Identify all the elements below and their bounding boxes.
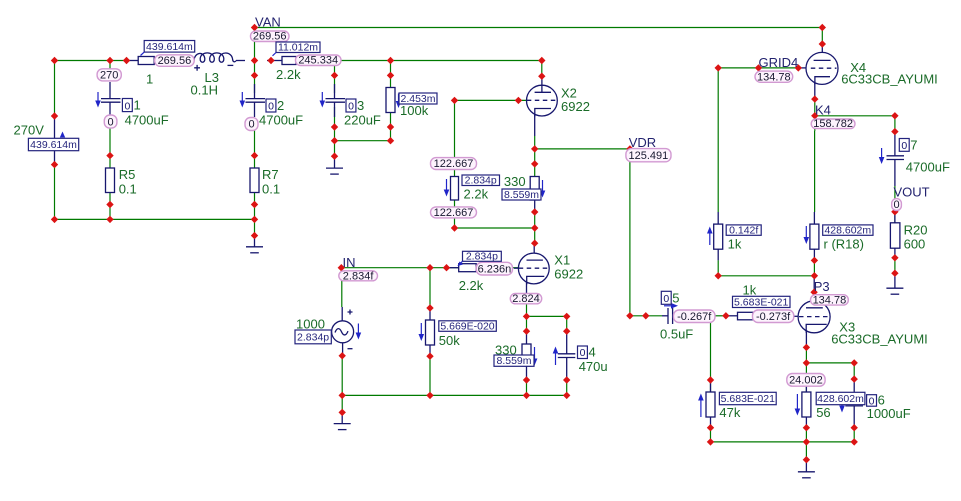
svg-text:2: 2: [277, 98, 284, 113]
wire X1 plate stub: [533, 243, 535, 260]
node label 158.782: [811, 118, 855, 130]
svg-text:0.1: 0.1: [262, 182, 280, 197]
svg-text:5.683E-021: 5.683E-021: [721, 393, 775, 405]
meter 2.834p (source): [295, 330, 331, 344]
wire X3 cathode to 1000uF y=362.9: [806, 362, 854, 364]
value 220uF: [344, 113, 381, 128]
svg-text:2.2k: 2.2k: [276, 67, 301, 82]
meter 439.614m (270V): [28, 138, 78, 151]
svg-text:47k: 47k: [719, 405, 740, 420]
svg-text:GRID4: GRID4: [759, 55, 799, 70]
wire X2 grid wire y=100.4: [455, 99, 527, 101]
ground below C3: [326, 158, 343, 174]
arrow 330 X1 current: [532, 347, 538, 366]
meter 5.669E-020: [439, 320, 497, 332]
node dots C7/R20: [891, 112, 898, 277]
meter 5.683E-021 (47k): [719, 392, 776, 405]
svg-text:VAN: VAN: [255, 15, 281, 30]
svg-text:0: 0: [348, 101, 354, 113]
value 0.1H: [191, 83, 218, 98]
svg-text:158.782: 158.782: [813, 118, 853, 130]
svg-text:R5: R5: [119, 167, 136, 182]
node dots X4: [715, 40, 827, 119]
resistor 330 (X2 cathode): [530, 177, 539, 201]
node label 122.667 top: [431, 158, 477, 170]
triode X4 6C33CB: [806, 52, 838, 84]
wire VAN vertical stub: [254, 28, 256, 61]
svg-text:2.824: 2.824: [512, 293, 540, 305]
wire 50k branch x=430: [429, 268, 431, 396]
arrow 47k current (up): [698, 394, 704, 418]
svg-text:4700uF: 4700uF: [125, 113, 169, 128]
name R20: [904, 223, 928, 238]
wire 470u branch x=566.7: [566, 316, 568, 395]
value 6C33CB_AYUMI X4: [841, 72, 938, 87]
node dots source: [339, 352, 346, 416]
meter 8.559m (X2 330): [502, 189, 541, 201]
value 330 X2: [504, 174, 526, 189]
value 1000uF: [867, 406, 911, 421]
node label 6.236n: [476, 262, 512, 275]
node dots 47k: [707, 376, 714, 445]
svg-text:VDR: VDR: [629, 135, 656, 150]
svg-text:1000: 1000: [296, 317, 325, 332]
value 0.1 R7: [262, 182, 280, 197]
wire bottom rail y=395.4: [342, 394, 567, 396]
capacitor C4 470u: [558, 354, 576, 358]
designator C7: [899, 137, 917, 152]
arrow C7 current: [879, 148, 885, 164]
svg-text:2.2k: 2.2k: [459, 278, 484, 293]
value 100k: [400, 103, 429, 118]
resistor R7 0.1: [250, 168, 259, 193]
svg-text:122.667: 122.667: [434, 207, 474, 219]
wire X2 plate stub: [541, 61, 543, 77]
svg-text:24.002: 24.002: [789, 375, 823, 387]
wire main rail y=60.5: [55, 60, 542, 62]
svg-text:245.334: 245.334: [298, 55, 338, 67]
node dots 470u: [563, 313, 570, 399]
wire 100k branch x=390.5: [390, 61, 392, 141]
wire X1 cathode to 470u y=316.4: [527, 315, 567, 317]
capacitor C6 1000uF: [845, 401, 863, 406]
resistor 47k: [706, 392, 715, 417]
node label 24.002: [787, 374, 825, 387]
svg-text:r (R18): r (R18): [824, 237, 864, 252]
value 47k: [719, 405, 740, 420]
wire r18 branch x=814.4: [813, 131, 815, 276]
node dots 1000uF: [851, 359, 858, 445]
resistor 2.2k X1 grid: [447, 264, 476, 272]
wire bottom-right rail y=441.9: [711, 441, 855, 443]
svg-text:100k: 100k: [400, 103, 429, 118]
ground bottom right: [798, 460, 815, 478]
value 4700uF C2: [259, 113, 303, 128]
svg-text:5: 5: [672, 290, 679, 305]
arrow 100k current: [396, 94, 402, 109]
arrow 470u current (up): [553, 347, 559, 366]
value 4700uF C1: [125, 113, 169, 128]
wire top VAN rail y=27.5: [255, 27, 823, 29]
value 2.2k X1 grid: [459, 278, 484, 293]
name X2: [561, 86, 577, 101]
node IN: [343, 255, 356, 270]
svg-text:470u: 470u: [579, 359, 608, 374]
svg-text:6C33CB_AYUMI: 6C33CB_AYUMI: [831, 332, 928, 347]
designator C1: [122, 98, 140, 113]
svg-text:1000uF: 1000uF: [867, 406, 911, 421]
svg-text:439.614m: 439.614m: [146, 41, 193, 53]
svg-text:2.834p: 2.834p: [465, 175, 497, 187]
value 2.2k grid leak: [464, 187, 489, 202]
svg-text:6C33CB_AYUMI: 6C33CB_AYUMI: [841, 72, 938, 87]
designator C5: [661, 290, 679, 305]
value 6922 X2: [561, 99, 590, 114]
name R5: [119, 167, 136, 182]
arrow C1 current: [95, 92, 101, 108]
wire 2.2k vertical branch x=454.5: [454, 100, 456, 228]
arrow 2.2k grid leak current: [444, 179, 450, 197]
svg-text:0: 0: [108, 116, 114, 128]
node dots 100k: [387, 72, 394, 145]
node dots left branch: [51, 112, 58, 223]
resistor 1 (series 0.1 ohm): [128, 57, 157, 65]
wire X4 cathode K4 x=814.8: [814, 77, 816, 131]
svg-text:330: 330: [495, 343, 517, 358]
resistor 330 (X1 cathode): [522, 344, 531, 366]
resistor 56: [802, 392, 811, 417]
name R7: [262, 167, 279, 182]
resistor 50k: [426, 320, 435, 345]
arrow 56 current: [795, 394, 801, 416]
designator C2: [266, 98, 284, 113]
svg-text:134.78: 134.78: [757, 71, 791, 83]
node dots X3 plate net: [715, 257, 819, 296]
svg-text:50k: 50k: [439, 333, 460, 348]
svg-text:270: 270: [100, 70, 118, 82]
svg-text:2.834f: 2.834f: [343, 270, 375, 282]
wire X4 plate x=822.3: [821, 28, 823, 61]
wire left branch x=54.5: [54, 61, 56, 220]
arrow r18 current: [804, 226, 810, 244]
svg-text:4700uF: 4700uF: [906, 160, 950, 175]
node VAN: [255, 15, 281, 30]
value 6C33CB_AYUMI X3: [831, 332, 928, 347]
resistor 1k (0.142f): [714, 224, 723, 249]
value 0.1 R5: [119, 182, 137, 197]
arrow C2 current: [240, 92, 246, 108]
svg-text:0: 0: [268, 101, 274, 113]
node dot VDR: [626, 145, 633, 152]
wire X3 plate node y=275.8: [718, 275, 814, 277]
node label 0 (C2): [245, 118, 258, 131]
node GRID4: [759, 55, 799, 70]
meter 2.834p (grid leak): [462, 175, 500, 187]
node dots C2/R7: [251, 72, 258, 240]
capacitor C2 4700uF: [246, 84, 266, 117]
node label 245.334: [296, 55, 342, 67]
node label 134.78 (P3): [811, 294, 849, 306]
ground below R20: [886, 273, 903, 294]
capacitor C5 0.5uF: [668, 308, 673, 324]
svg-text:439.614m: 439.614m: [30, 139, 77, 151]
svg-text:0: 0: [580, 347, 586, 359]
svg-text:-0.267f: -0.267f: [677, 311, 712, 323]
value 2.2k (rail): [276, 67, 301, 82]
wire VDR vertical x=629.9: [629, 149, 631, 316]
resistor 1k X3 grid: [738, 312, 754, 320]
svg-text:0.142f: 0.142f: [729, 225, 758, 237]
node dots X1 cathode: [523, 313, 530, 399]
svg-text:134.78: 134.78: [813, 294, 847, 306]
arrow 1k 0.142f current (up): [707, 227, 713, 246]
node label 0 (VOUT): [892, 199, 902, 212]
svg-text:P3: P3: [814, 279, 830, 294]
node dots X3 cathode: [803, 344, 810, 464]
svg-text:R7: R7: [262, 167, 279, 182]
svg-text:0: 0: [663, 293, 669, 305]
node K4: [815, 103, 831, 118]
wire X3 plate lead: [813, 276, 815, 308]
arrow 1000uF current: [839, 398, 845, 413]
svg-text:1: 1: [134, 98, 141, 113]
value 1k (X3 grid): [743, 283, 757, 298]
name X4: [850, 60, 866, 75]
svg-text:4700uF: 4700uF: [259, 113, 303, 128]
svg-text:1k: 1k: [728, 237, 742, 252]
wire X1 cathode x=526.5: [526, 277, 528, 396]
meter 428.602m (56): [816, 392, 865, 405]
value r (R18): [824, 237, 864, 252]
wire C3 branch x=334.5: [334, 65, 336, 158]
svg-text:269.56: 269.56: [158, 55, 192, 67]
meter 5.683E-021 (X3 grid): [733, 296, 791, 308]
value 56: [816, 405, 830, 420]
value 600: [904, 237, 926, 252]
node label 134.78 (GRID4): [755, 71, 793, 83]
meter 428.602m (r18): [823, 225, 873, 237]
svg-text:56: 56: [816, 405, 830, 420]
wire VDR link y=148.9: [535, 148, 630, 150]
arrow C3 current: [320, 92, 326, 108]
node label 2.824: [510, 293, 541, 305]
svg-text:0: 0: [248, 119, 254, 131]
svg-text:125.491: 125.491: [629, 150, 669, 162]
node label 269.56 (rail): [155, 55, 195, 67]
node label 2.834f: [339, 270, 378, 282]
svg-text:0: 0: [124, 100, 130, 112]
triode X2 6922: [527, 76, 558, 116]
meter 0.142f: [726, 225, 761, 237]
resistor 2 (series 2.2k): [267, 57, 296, 65]
node P3: [814, 279, 830, 294]
node VOUT: [894, 185, 930, 200]
svg-text:-0.273f: -0.273f: [756, 311, 791, 323]
node label -0.273f: [753, 310, 794, 323]
triode X3 6C33CB: [798, 301, 830, 333]
resistor 100k bleeder: [386, 88, 395, 113]
meter 2.453m: [399, 93, 437, 105]
voltage source 270V: [54, 116, 56, 165]
wire C7/R20 branch x=894.9: [894, 116, 896, 273]
node label 269.56 (VAN): [251, 31, 290, 43]
value 330 X1: [495, 343, 517, 358]
resistor 2.2k grid leak vertical: [451, 177, 459, 201]
value 1 (series R): [146, 72, 153, 87]
node dots C3: [331, 72, 338, 160]
wire bottom-left rail y=219.4: [55, 218, 255, 220]
svg-text:2.2k: 2.2k: [464, 187, 489, 202]
meter 2.834p (X1 grid R): [458, 251, 502, 266]
svg-text:330: 330: [504, 174, 526, 189]
svg-text:0.1: 0.1: [119, 182, 137, 197]
svg-text:2.834p: 2.834p: [297, 332, 329, 344]
svg-text:600: 600: [904, 237, 926, 252]
ground below source: [334, 412, 351, 429]
svg-text:270V: 270V: [14, 123, 45, 138]
svg-text:6922: 6922: [561, 99, 590, 114]
capacitor C7 4700uF: [887, 156, 905, 160]
svg-text:6.236n: 6.236n: [478, 264, 512, 276]
arrow source current: [356, 324, 362, 340]
svg-text:428.602m: 428.602m: [824, 225, 871, 237]
svg-text:R20: R20: [904, 223, 928, 238]
capacitor C1 4700uF: [101, 82, 121, 115]
wire 47k tap x=710.5: [710, 323, 712, 442]
wire C3-100k bottom link y=140.7: [335, 140, 391, 142]
value 4700uF C7: [906, 160, 950, 175]
svg-text:122.667: 122.667: [434, 158, 474, 170]
meter 439.614m (series R): [141, 41, 195, 56]
svg-text:1k: 1k: [743, 283, 757, 298]
node label 122.667 bottom: [431, 207, 477, 219]
designator C4: [578, 345, 596, 360]
svg-text:5.669E-020: 5.669E-020: [440, 320, 494, 332]
node dots 0.5uF chain: [626, 312, 729, 319]
wire IN branch x=342: [341, 268, 344, 413]
wire grid-leak link y=228: [455, 227, 535, 229]
name X3: [839, 320, 855, 335]
svg-text:0: 0: [901, 140, 907, 152]
svg-text:0: 0: [893, 199, 899, 211]
meter 8.559m (X1 330): [494, 355, 534, 367]
triode X1 6922: [514, 253, 550, 284]
arrow 270V current (up): [60, 132, 65, 138]
svg-text:1: 1: [146, 72, 153, 87]
node dots C1/R5: [106, 152, 113, 223]
arrow 0.5uF current (right): [664, 303, 678, 309]
ground below R7: [246, 238, 263, 253]
wire GRID4 horizontal y=67.9: [718, 67, 806, 69]
designator C3: [346, 98, 364, 113]
wire 0.5uF chain y=315.8: [630, 315, 798, 318]
meter 11.012m: [273, 42, 321, 56]
wire C2 branch x=254.5: [254, 61, 256, 239]
wire IN to X1 grid y=267.7: [341, 267, 518, 269]
svg-text:0.1H: 0.1H: [191, 83, 218, 98]
svg-text:X1: X1: [554, 253, 570, 268]
node dots X2: [451, 73, 546, 247]
svg-text:220uF: 220uF: [344, 113, 381, 128]
svg-text:2.834p: 2.834p: [466, 251, 498, 263]
svg-text:VOUT: VOUT: [894, 185, 930, 200]
svg-text:8.559m: 8.559m: [504, 189, 539, 201]
wire X2 cathode chain x=534.7: [534, 109, 536, 244]
node label 270: [97, 69, 121, 82]
value 0.5uF: [660, 327, 693, 342]
value 1k (0.142f): [728, 237, 742, 252]
name X1: [554, 253, 570, 268]
wire GRID4 branch x=718.2: [717, 68, 719, 276]
svg-text:428.602m: 428.602m: [817, 393, 864, 405]
value 270V: [14, 123, 45, 138]
value 1000: [296, 317, 325, 332]
node label -0.267f: [674, 310, 716, 323]
value 6922 X1: [554, 267, 583, 282]
svg-text:7: 7: [910, 137, 917, 152]
node label 0 (C1): [104, 115, 117, 128]
designator C6: [867, 393, 885, 408]
svg-text:K4: K4: [815, 103, 831, 118]
wire X3 cathode x=806.4: [805, 324, 807, 459]
inductor L3 0.1H: [194, 53, 245, 71]
svg-text:5.683E-021: 5.683E-021: [734, 296, 788, 308]
wire 1000uF branch x=854.2: [853, 363, 855, 442]
node dots main rail: [51, 57, 546, 64]
svg-text:6922: 6922: [554, 267, 583, 282]
node dots 50k: [426, 304, 433, 399]
source 1000 input: [332, 310, 354, 349]
node label 125.491: [626, 149, 671, 163]
svg-text:IN: IN: [343, 255, 356, 270]
svg-text:0.5uF: 0.5uF: [660, 327, 693, 342]
value 50k: [439, 333, 460, 348]
svg-text:11.012m: 11.012m: [278, 42, 318, 54]
node VDR: [629, 135, 656, 150]
resistor R5 0.1: [106, 168, 115, 193]
resistor R20 600: [890, 223, 900, 248]
svg-text:3: 3: [357, 98, 364, 113]
arrow 50k current: [419, 323, 425, 341]
svg-text:4: 4: [589, 345, 596, 360]
wire C1 branch x=110: [109, 61, 111, 220]
resistor r (R18): [810, 224, 819, 249]
node dots top rail: [251, 24, 826, 31]
value 470u: [579, 359, 608, 374]
arrow 330 X2 current: [540, 180, 546, 198]
wire K4 to C7 y=115.8: [815, 115, 895, 117]
node dots IN wire: [338, 264, 451, 271]
capacitor C3 220uF: [326, 84, 346, 117]
name L3: [205, 70, 219, 85]
